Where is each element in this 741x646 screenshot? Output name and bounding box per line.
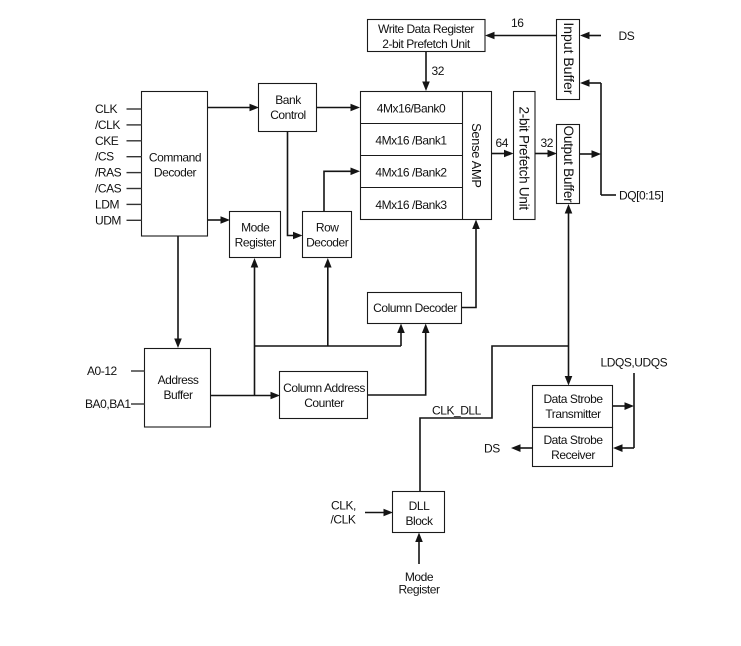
svg-text:CKE: CKE [95,134,119,148]
svg-text:DS: DS [619,29,635,43]
wire: address bus to Column Decoder [397,324,405,347]
wire: Input Buffer to Write Data Register (16) [485,32,557,40]
svg-text:Address: Address [158,373,199,387]
wire: Data Strobe Transmitter to LDQS bus [613,402,634,410]
block: Output Buffer [557,125,580,204]
svg-text:UDM: UDM [95,213,121,227]
svg-text:Command: Command [149,151,201,165]
pin tick: /RAS [127,172,143,174]
pin tick: /CLK [127,124,143,126]
svg-text:2-bit Prefetch Unit: 2-bit Prefetch Unit [517,107,532,211]
svg-text:4Mx16 /Bank3: 4Mx16 /Bank3 [375,198,447,212]
wire: Mode Register input to DLL Block [415,533,423,565]
block: 2-bit Prefetch Unit (vertical) [514,92,536,220]
block: Command Decoder [142,92,208,237]
pin tick: LDM [127,203,143,205]
svg-text:Decoder: Decoder [306,236,349,250]
svg-text:CLK,: CLK, [331,499,356,513]
svg-text:16: 16 [511,16,524,30]
wire: DQ vertical bus [600,83,602,195]
wire: 2-bit Prefetch Unit to Output Buffer (32) [535,150,557,158]
wire: Command Decoder to Address Buffer [174,236,182,348]
svg-text:Transmitter: Transmitter [545,407,601,421]
block: DLL Block [393,492,445,533]
svg-text:Output Buffer: Output Buffer [561,126,576,204]
wire: LDQS,UDQS vertical [633,373,635,448]
wire: DQ bus to Input Buffer [580,79,601,87]
svg-text:Receiver: Receiver [551,448,595,462]
block: Write Data Register / 2-bit Prefetch Unit [368,20,486,52]
wire: address bus horizontal [255,345,402,347]
svg-text:/CS: /CS [95,150,114,164]
svg-text:/CLK: /CLK [95,118,120,132]
wire: address bus to Row Decoder [324,258,332,346]
svg-text:LDQS,UDQS: LDQS,UDQS [601,356,668,370]
wire: Command Decoder to Bank Control [208,104,259,112]
svg-text:Block: Block [405,514,434,528]
wire: Row Decoder top to Bank2 [324,168,360,212]
svg-text:Register: Register [398,583,440,597]
svg-text:Write Data Register: Write Data Register [378,22,474,36]
svg-text:DQ[0:15]: DQ[0:15] [619,189,664,203]
svg-text:Counter: Counter [304,396,344,410]
pin tick: /CAS [127,188,143,190]
svg-text:4Mx16/Bank0: 4Mx16/Bank0 [377,102,446,116]
svg-text:A0-12: A0-12 [87,364,118,378]
pin tick: BA0,BA1 [131,403,145,405]
svg-text:/RAS: /RAS [95,166,122,180]
svg-text:64: 64 [496,136,509,150]
svg-text:Data Strobe: Data Strobe [543,392,603,406]
wire: Data Strobe Receiver to DS output [511,444,533,452]
svg-text:Column Address: Column Address [283,381,365,395]
svg-text:Register: Register [235,236,277,250]
wire: Bank Control to Bank0 [317,104,360,112]
wire: Address Buffer to Column Address Counter [211,392,280,400]
wire: DQ stub [601,194,616,196]
svg-text:4Mx16 /Bank1: 4Mx16 /Bank1 [375,134,447,148]
svg-text:Input Buffer: Input Buffer [561,22,577,94]
pin tick: A0-12 [131,370,145,372]
pin tick: /CS [127,156,143,158]
svg-text:4Mx16 /Bank2: 4Mx16 /Bank2 [375,166,447,180]
svg-text:Buffer: Buffer [163,388,193,402]
block: Data Strobe Transmitter [533,386,613,428]
wire: CLK,/CLK to DLL Block [365,509,393,517]
svg-text:32: 32 [432,64,445,78]
svg-text:Mode: Mode [241,221,270,235]
wire: address riser to Mode Register [251,258,259,396]
block: Data Strobe Receiver [533,428,613,467]
block: Input Buffer [557,20,580,100]
svg-text:Data Strobe: Data Strobe [543,433,603,447]
svg-text:CLK: CLK [95,102,117,116]
pin tick: CKE [127,140,143,142]
block: Column Address Counter [280,372,368,419]
svg-text:DLL: DLL [409,499,430,513]
svg-text:Bank: Bank [275,93,302,107]
svg-text:Sense AMP: Sense AMP [469,123,484,188]
wire: CLK_DLL net from DLL Block [420,346,569,491]
svg-text:LDM: LDM [95,197,119,211]
block: Bank Control [259,84,317,132]
svg-text:/CAS: /CAS [95,182,122,196]
block: memory bank array outline with Sense AMP [361,92,492,220]
svg-text:Control: Control [270,108,306,122]
wire: Sense AMP to 2-bit Prefetch Unit (64) [492,150,514,158]
svg-text:/CLK: /CLK [331,513,356,527]
svg-text:2-bit Prefetch Unit: 2-bit Prefetch Unit [382,37,471,51]
block: Mode Register [230,212,281,258]
wire: Bank Control to Row Decoder [288,131,303,239]
block: Row Decoder [303,212,352,258]
wire: Command Decoder to Mode Register [208,216,230,224]
wire: Column Address Counter to Column Decoder [368,324,430,396]
pin tick: UDM [127,219,143,221]
wire: LDQS bus to Data Strobe Receiver [613,444,634,452]
pin tick: CLK [127,108,143,110]
svg-text:Decoder: Decoder [154,166,197,180]
wire: Output Buffer / Data Strobe Transmitter bidirectional [565,204,573,386]
block: Address Buffer [145,349,211,428]
wire: Column Decoder to Sense AMP [462,220,480,308]
wire: Write Data Register to bank array (32) [422,52,430,91]
block: Column Decoder [368,293,462,324]
svg-text:CLK_DLL: CLK_DLL [432,404,482,418]
svg-text:Column Decoder: Column Decoder [373,301,457,315]
svg-text:32: 32 [541,136,554,150]
svg-text:Row: Row [316,221,339,235]
svg-text:DS: DS [484,442,500,456]
svg-text:BA0,BA1: BA0,BA1 [85,397,131,411]
wire: DS input to Input Buffer [580,32,601,40]
wire: Output Buffer to DQ junction [580,150,601,158]
